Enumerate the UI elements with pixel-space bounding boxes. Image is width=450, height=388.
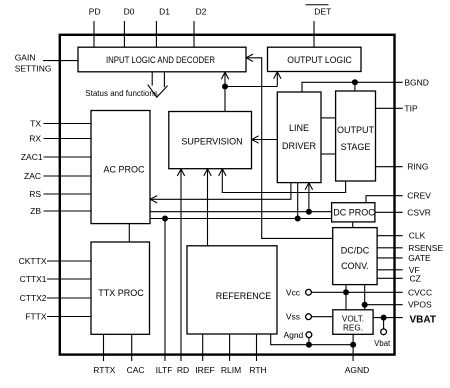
svg-text:REG.: REG. xyxy=(343,324,363,333)
svg-text:LINE: LINE xyxy=(289,123,309,133)
svg-text:Agnd: Agnd xyxy=(283,330,303,340)
svg-text:RS: RS xyxy=(29,189,41,199)
svg-text:DC PROC: DC PROC xyxy=(333,207,375,217)
svg-text:VOLT.: VOLT. xyxy=(342,315,364,324)
pin RX xyxy=(29,134,91,144)
wire LINE DRIVER to OUTPUT STAGE lower xyxy=(321,153,336,155)
wire DC/DC to VOLT REG and VPOS xyxy=(362,285,368,310)
pin RTH xyxy=(249,334,266,375)
pin VPOS xyxy=(365,300,432,310)
svg-text:CAC: CAC xyxy=(127,365,145,375)
svg-text:CLK: CLK xyxy=(409,231,426,241)
svg-text:CZ: CZ xyxy=(410,273,421,283)
block U5 TTX PROC xyxy=(91,242,150,334)
block U6 REFERENCE xyxy=(187,246,277,334)
svg-text:Vcc: Vcc xyxy=(286,287,301,297)
wire REFERENCE to SUPERVISION (arrow up) xyxy=(204,169,211,246)
pin GATE xyxy=(377,253,431,263)
pin RING xyxy=(376,162,429,172)
svg-text:RLIM: RLIM xyxy=(221,365,241,375)
svg-text:IREF: IREF xyxy=(195,365,214,375)
block U8 OUTPUT STAGE xyxy=(336,91,376,181)
svg-text:ILTF: ILTF xyxy=(156,365,173,375)
svg-text:VBAT: VBAT xyxy=(410,315,436,326)
block U1 INPUT LOGIC AND DECODER xyxy=(78,47,246,72)
svg-text:AC PROC: AC PROC xyxy=(103,165,145,175)
pin D2 xyxy=(194,7,207,48)
wire SUPERVISION to INPUT LOGIC (arrow up) and OUTPUT LOGIC (arrow up) xyxy=(221,72,281,112)
wire AC PROC to TTX PROC xyxy=(128,224,130,242)
svg-text:RSENSE: RSENSE xyxy=(408,243,443,253)
block U2 OUTPUT LOGIC xyxy=(268,47,362,71)
pin CTTX1 xyxy=(20,274,91,284)
wire OUTPUT STAGE bottom to SUPERVISION bottom (arrow up) xyxy=(219,169,346,193)
block U4 AC PROC xyxy=(91,111,150,224)
pin CREV (wire from DC PROC top) xyxy=(366,191,431,203)
pin D0 xyxy=(124,7,135,48)
chip outline xyxy=(60,35,395,355)
svg-text:BGND: BGND xyxy=(404,77,429,87)
svg-text:D1: D1 xyxy=(159,7,170,17)
block U10 DC/DC CONV xyxy=(333,228,377,285)
pin BGND (net from LINE DRIVER top and OUTPUT STAGE top) xyxy=(302,77,429,92)
block U7 LINE DRIVER xyxy=(277,92,321,183)
pin DET (active low) xyxy=(306,5,332,48)
svg-text:CTTX2: CTTX2 xyxy=(20,293,47,303)
wire Vcc to DC/DC and VOLT REG xyxy=(343,285,349,310)
pin GAIN SETTING xyxy=(15,53,78,74)
pin TIP xyxy=(376,103,418,113)
pin RD (wire up into SUPERVISION with arrow) xyxy=(177,169,189,375)
svg-text:FTTX: FTTX xyxy=(25,312,47,322)
pin CZ xyxy=(377,273,421,283)
svg-text:GATE: GATE xyxy=(408,253,431,263)
svg-text:CSVR: CSVR xyxy=(407,207,431,217)
svg-text:ZB: ZB xyxy=(30,206,41,216)
pin FTTX xyxy=(25,312,91,322)
svg-text:CREV: CREV xyxy=(407,191,431,201)
svg-text:PD: PD xyxy=(89,7,101,17)
wire VBAT net with Vbat terminal xyxy=(374,315,391,348)
wire LINE DRIVER bottom to AC PROC (arrow left) xyxy=(150,183,291,203)
pin PD xyxy=(89,7,101,48)
pin ZAC xyxy=(24,171,91,181)
pin CLK xyxy=(377,231,426,241)
pin AGND xyxy=(345,334,370,375)
text Status and functions xyxy=(85,89,158,98)
svg-text:AGND: AGND xyxy=(345,365,370,375)
svg-text:DRIVER: DRIVER xyxy=(282,141,317,151)
block U3 SUPERVISION xyxy=(169,112,252,169)
svg-text:CTTX1: CTTX1 xyxy=(20,274,47,284)
wire status+functions double arrow from INPUT LOGIC xyxy=(148,72,168,97)
pin CSVR xyxy=(375,207,431,217)
pin RS xyxy=(29,189,91,199)
pin TX xyxy=(30,119,91,129)
svg-text:D2: D2 xyxy=(196,7,207,17)
svg-text:ZAC: ZAC xyxy=(24,171,41,181)
svg-text:RTTX: RTTX xyxy=(93,365,115,375)
svg-text:TTX PROC: TTX PROC xyxy=(98,288,144,298)
wire AC PROC to DC PROC lower (taps ILTF and LINE DRIVER) xyxy=(150,183,332,222)
svg-text:OUTPUT: OUTPUT xyxy=(337,125,375,135)
wire Agnd net: REFERENCE bottom to AGND line xyxy=(271,334,356,348)
pin ZB xyxy=(30,206,91,216)
terminal Vcc xyxy=(286,287,312,297)
block U11 VOLT REG xyxy=(333,310,373,335)
svg-text:RX: RX xyxy=(29,134,41,144)
pin IREF xyxy=(195,334,214,375)
svg-text:SUPERVISION: SUPERVISION xyxy=(181,137,242,147)
junction dot node A xyxy=(222,84,228,90)
svg-text:CVCC: CVCC xyxy=(408,287,432,297)
svg-text:ZAC1: ZAC1 xyxy=(21,152,43,162)
svg-text:TX: TX xyxy=(30,119,41,129)
wire DC PROC to DC/DC CONV xyxy=(352,222,354,228)
svg-text:Vss: Vss xyxy=(286,312,300,322)
svg-text:DET: DET xyxy=(314,7,331,17)
svg-text:INPUT LOGIC AND DECODER: INPUT LOGIC AND DECODER xyxy=(106,55,215,65)
terminal Agnd xyxy=(283,330,311,340)
svg-text:TIP: TIP xyxy=(404,103,418,113)
svg-text:RTH: RTH xyxy=(249,365,266,375)
pin CAC xyxy=(127,334,145,375)
svg-text:RING: RING xyxy=(407,162,428,172)
pin ILTF xyxy=(156,219,173,376)
pin CVCC (Vcc net) xyxy=(312,287,433,297)
svg-text:DC/DC: DC/DC xyxy=(341,246,370,256)
wire LINE DRIVER to SUPERVISION (arrow left) xyxy=(252,136,278,143)
wire LINE DRIVER to OUTPUT STAGE upper xyxy=(321,117,336,119)
wire AC PROC to DC PROC upper (arrow up into LINE DRIVER) xyxy=(150,183,332,215)
pin D1 xyxy=(156,7,170,48)
pin RLIM xyxy=(221,334,241,375)
svg-text:RD: RD xyxy=(177,365,189,375)
svg-text:SETTING: SETTING xyxy=(15,64,52,74)
svg-text:OUTPUT LOGIC: OUTPUT LOGIC xyxy=(287,55,352,65)
pin CTTX2 xyxy=(20,293,91,303)
svg-text:STAGE: STAGE xyxy=(341,142,371,152)
pin CKTTX xyxy=(19,256,91,266)
svg-text:Status and functions: Status and functions xyxy=(85,89,158,98)
pin RTTX xyxy=(93,334,115,375)
svg-text:D0: D0 xyxy=(124,7,135,17)
svg-text:VPOS: VPOS xyxy=(408,300,432,310)
svg-text:CONV.: CONV. xyxy=(341,261,369,271)
pin ZAC1 xyxy=(21,152,91,162)
pin RSENSE xyxy=(377,243,443,253)
svg-text:REFERENCE: REFERENCE xyxy=(216,291,272,301)
svg-text:Vbat: Vbat xyxy=(374,339,391,348)
svg-text:GAIN: GAIN xyxy=(15,53,36,63)
wire DC/DC feedback to INPUT LOGIC (arrow left) xyxy=(246,54,333,238)
pin VF xyxy=(377,265,420,275)
block U9 DC PROC xyxy=(332,203,376,222)
pin VBAT xyxy=(373,315,436,326)
svg-text:CKTTX: CKTTX xyxy=(19,256,47,266)
terminal Vss xyxy=(286,312,333,322)
